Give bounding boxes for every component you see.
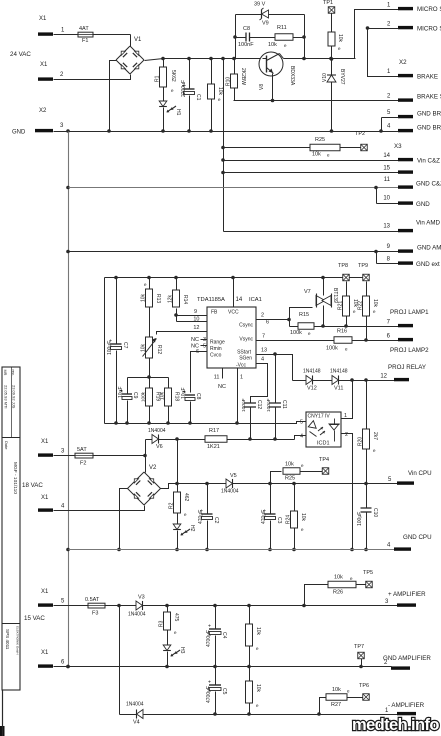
resistor R26 10k	[305, 575, 366, 606]
wire rail A	[105, 421, 307, 425]
svg-text:V10: V10	[322, 73, 328, 82]
test point TP1	[323, 0, 335, 33]
svg-text:+ AMPLIFIER: + AMPLIFIER	[388, 591, 426, 598]
svg-text:2200µF: 2200µF	[181, 80, 187, 97]
svg-text:2k7: 2k7	[372, 432, 378, 440]
svg-text:R18: R18	[174, 392, 180, 401]
wire pin12	[157, 332, 208, 335]
diode V6 1N4004	[148, 428, 166, 450]
connector + AMPLIFIER	[385, 591, 426, 607]
svg-text:1N4148: 1N4148	[303, 369, 321, 375]
svg-text:100µF: 100µF	[107, 341, 113, 355]
diode V3 1N4004	[128, 595, 398, 618]
svg-text:13: 13	[261, 348, 267, 354]
svg-text:X2: X2	[399, 59, 407, 66]
svg-text:ICD1: ICD1	[317, 441, 330, 447]
svg-text:TP5: TP5	[363, 570, 373, 576]
wire vin amd	[224, 231, 399, 233]
svg-text:C1: C1	[195, 94, 201, 101]
svg-text:10k: 10k	[255, 684, 261, 693]
svg-text:100k: 100k	[326, 346, 338, 352]
capacitor C7 100uF	[107, 278, 128, 424]
wire	[107, 59, 163, 133]
svg-text:10k: 10k	[300, 513, 306, 522]
svg-text:TP7: TP7	[354, 644, 364, 650]
svg-text:+: +	[208, 624, 211, 630]
svg-text:R10: R10	[226, 77, 232, 86]
svg-text:VCC: VCC	[228, 310, 239, 316]
svg-text:10µF: 10µF	[118, 387, 124, 399]
test point TP4	[319, 457, 329, 474]
svg-text:GND BRA: GND BRA	[417, 125, 441, 132]
svg-text:C2: C2	[213, 517, 219, 524]
svg-text:100µF: 100µF	[357, 512, 363, 526]
svg-text:470µF: 470µF	[198, 510, 204, 524]
pin 1	[235, 369, 243, 425]
svg-text:10µF: 10µF	[181, 388, 187, 400]
svg-text:10k: 10k	[337, 34, 343, 43]
resistor R24 10k	[286, 484, 307, 552]
capacitor C9 10uF	[118, 378, 138, 424]
wire dc rail 18v	[161, 482, 227, 489]
connector X3 6 PROJ LAMP2	[387, 334, 429, 355]
connector X3 13 Vin AMD	[383, 220, 440, 233]
resistor R25 10k	[224, 137, 361, 158]
svg-text:39 V: 39 V	[254, 2, 266, 8]
resistor R2 462	[169, 440, 190, 518]
wire	[54, 35, 131, 47]
title block	[2, 367, 21, 690]
svg-text:13: 13	[383, 224, 390, 230]
resistor R18 10k	[160, 378, 180, 424]
svg-text:11: 11	[384, 177, 391, 183]
svg-text:10k: 10k	[141, 293, 147, 302]
wire gnd rail	[54, 129, 399, 133]
svg-text:Vin CPU: Vin CPU	[408, 470, 432, 477]
svg-text:C9: C9	[132, 392, 138, 399]
svg-text:X1: X1	[39, 16, 47, 22]
svg-text:7: 7	[262, 334, 265, 340]
svg-text:R25: R25	[315, 137, 325, 143]
svg-text:V9: V9	[262, 21, 269, 27]
svg-text:10k: 10k	[312, 152, 321, 158]
svg-text:BYV27: BYV27	[339, 69, 345, 85]
connector GND AMPLIFIER	[383, 655, 431, 670]
label 24 VAC	[10, 51, 31, 58]
diode V5 1N4004	[221, 473, 398, 495]
bridge rectifier V2	[128, 465, 161, 505]
svg-text:TP8: TP8	[338, 263, 348, 269]
wire	[117, 604, 121, 608]
test point TP2	[355, 131, 367, 151]
svg-text:5K62: 5K62	[170, 70, 176, 82]
test point TP6	[359, 683, 369, 700]
svg-text:C8: C8	[195, 393, 201, 400]
resistor R25 10k	[271, 462, 323, 484]
svg-text:R21: R21	[338, 301, 344, 310]
connector GND CPU	[387, 534, 432, 551]
wire	[143, 440, 147, 473]
svg-text:R2: R2	[169, 502, 175, 509]
connector MICRO SW 2	[387, 22, 441, 33]
svg-text:V6: V6	[156, 444, 163, 450]
wire gnd amp rail	[54, 665, 392, 669]
connector GND BRA	[387, 124, 441, 133]
capacitor C8 10uF	[181, 388, 201, 424]
test point TP5	[363, 570, 373, 588]
triac V7 BT139	[304, 278, 338, 327]
svg-text:4AT: 4AT	[79, 26, 89, 32]
svg-text:Vsync: Vsync	[239, 337, 253, 343]
svg-text:SPS 4011: SPS 4011	[5, 629, 10, 650]
wire collector	[284, 57, 356, 61]
capacitor C11 100nF	[266, 355, 287, 441]
svg-text:R15: R15	[299, 312, 309, 318]
svg-text:V11: V11	[334, 386, 343, 392]
connector X3 9 GND AMD	[387, 244, 441, 253]
svg-text:X1: X1	[41, 495, 49, 501]
wire pin6	[191, 352, 208, 393]
svg-text:H2: H2	[189, 525, 195, 532]
resistor 10k	[328, 32, 343, 61]
watermark	[352, 716, 439, 734]
svg-text:-Vcc: -Vcc	[236, 363, 247, 369]
svg-text:V2: V2	[149, 465, 157, 471]
svg-text:R22: R22	[358, 301, 364, 310]
resistor R20 2k7	[358, 381, 379, 486]
connector X1 pin 2	[38, 62, 64, 81]
svg-text:C4: C4	[221, 632, 227, 639]
svg-text:- AMPLIFIER: - AMPLIFIER	[388, 702, 425, 709]
connector X3 8 GND ext	[387, 257, 440, 269]
resistor R17 1K21	[205, 428, 227, 450]
connector X1 pin 3	[38, 439, 65, 457]
wire pin4	[295, 436, 307, 440]
svg-text:18 VAC: 18 VAC	[22, 482, 43, 489]
svg-text:1N4004: 1N4004	[221, 489, 239, 495]
svg-text:475: 475	[173, 613, 179, 622]
wire	[377, 252, 399, 264]
wire	[54, 605, 137, 607]
svg-text:5AT: 5AT	[77, 447, 87, 453]
resistor 10k	[208, 59, 224, 132]
svg-text:NC: NC	[218, 384, 226, 390]
svg-text:C3: C3	[276, 517, 282, 524]
wire pin1	[342, 381, 353, 419]
svg-text:CNY17 IV: CNY17 IV	[308, 414, 331, 420]
svg-text:5: 5	[203, 344, 206, 350]
svg-text:X1: X1	[41, 589, 49, 595]
pin 11 NC	[214, 369, 226, 391]
svg-text:11: 11	[214, 375, 220, 381]
resistor R3 475	[159, 606, 180, 636]
capacitor C8 100nF	[236, 26, 276, 48]
connector X3 10 GND	[383, 196, 430, 209]
diode V12 1N4148	[293, 369, 333, 392]
svg-text:NC: NC	[191, 337, 199, 343]
diode V10 BYV27	[322, 60, 345, 133]
svg-text:10: 10	[193, 317, 199, 323]
svg-text:1: 1	[240, 375, 243, 381]
svg-text:Range: Range	[210, 340, 225, 346]
connector X1 pin 1	[38, 16, 65, 36]
svg-text:15: 15	[383, 166, 390, 172]
svg-text:100k: 100k	[141, 391, 146, 402]
svg-text:X1: X1	[41, 439, 49, 445]
svg-text:10k: 10k	[285, 462, 294, 468]
resistor R21 10k	[338, 282, 359, 327]
connector X3 14 Vin C&Z	[383, 153, 440, 165]
svg-text:10k: 10k	[268, 42, 277, 48]
wire	[366, 26, 399, 76]
resistor R14 12k	[168, 278, 208, 322]
connector X3 7 PROJ LAMP1	[387, 309, 429, 327]
svg-text:BDX33A: BDX33A	[289, 66, 295, 86]
svg-text:10: 10	[383, 196, 390, 202]
capacitor C5 4700uF	[206, 667, 227, 715]
svg-text:1N4148: 1N4148	[330, 369, 348, 375]
svg-text:BT139: BT139	[332, 288, 338, 303]
svg-text:R17: R17	[209, 428, 219, 434]
svg-text:Vin AMD: Vin AMD	[416, 220, 440, 227]
svg-text:4700µF: 4700µF	[206, 630, 212, 647]
connector X3 11 GND C&Z	[384, 177, 441, 189]
test point TP9	[358, 263, 369, 281]
wire	[117, 489, 127, 552]
svg-text:14: 14	[383, 153, 390, 159]
svg-text:10k: 10k	[141, 343, 147, 352]
svg-text:TP2: TP2	[355, 131, 365, 137]
svg-text:10k: 10k	[334, 575, 343, 581]
wire	[355, 10, 399, 59]
svg-text:TDA1185A: TDA1185A	[197, 297, 225, 303]
connector GND BR	[382, 110, 441, 132]
IC ICA1 TDA1185A	[191, 297, 269, 369]
connector X2 BRAKE	[387, 59, 438, 81]
svg-text:10k: 10k	[332, 687, 341, 693]
wire gnd cpu rail	[69, 549, 395, 551]
svg-text:R14: R14	[182, 295, 188, 304]
capacitor C4 4700uF	[206, 606, 227, 669]
svg-text:12k: 12k	[168, 294, 174, 303]
frame bottom	[0, 691, 5, 736]
wire line B	[146, 437, 295, 441]
wire	[224, 160, 399, 162]
connector X1 pin 5	[38, 589, 65, 607]
svg-text:PROJ LAMP1: PROJ LAMP1	[390, 309, 429, 316]
wire	[233, 15, 237, 59]
svg-text:MGF - 101/110: MGF - 101/110	[12, 462, 18, 494]
wire	[54, 455, 146, 457]
svg-text:V8: V8	[259, 84, 265, 90]
wire pin14 vcc	[233, 278, 235, 308]
LED H3	[163, 631, 185, 669]
resistor R16 100k	[326, 329, 399, 352]
svg-text:X2: X2	[39, 108, 47, 114]
svg-text:V7: V7	[304, 289, 311, 295]
svg-text:24 VAC: 24 VAC	[10, 51, 31, 58]
svg-text:100nF: 100nF	[241, 398, 247, 412]
svg-text:H3: H3	[179, 647, 185, 654]
svg-text:R1: R1	[155, 75, 161, 82]
capacitor C12 100nF	[241, 364, 268, 441]
wire	[104, 278, 106, 424]
resistor R22 10k	[358, 282, 379, 342]
connector X3 15	[383, 166, 413, 174]
connector X2 pin 3 GND	[12, 108, 64, 136]
capacitor C3 470uF	[261, 484, 282, 552]
label 15 VAC	[24, 615, 45, 622]
svg-text:R26: R26	[333, 590, 343, 596]
resistor R19 100k	[141, 378, 161, 424]
svg-text:23.09.92 JJS: 23.09.92 JJS	[12, 385, 17, 409]
connector X1 pin 4	[38, 495, 65, 512]
svg-text:R20: R20	[358, 437, 364, 446]
connector - AMPLIFIER	[385, 702, 425, 715]
svg-text:GND: GND	[12, 130, 26, 136]
potentiometer R12	[141, 308, 163, 359]
connector Vin CPU	[388, 470, 432, 485]
zener V9 39V	[236, 2, 305, 27]
pin stub NC 3	[201, 339, 208, 341]
wire gnd c&z rail	[69, 186, 399, 190]
fuse F2 5AT	[75, 447, 94, 467]
svg-text:Csync: Csync	[239, 323, 253, 329]
wire tda top rail	[105, 276, 367, 280]
pin stub NC 5	[201, 345, 208, 347]
fuse F1 4AT	[78, 26, 94, 44]
svg-text:V5: V5	[230, 473, 237, 479]
wire	[119, 606, 121, 715]
wire lamp1	[315, 324, 399, 328]
wire gnd bus	[66, 132, 70, 669]
svg-text:ICA1: ICA1	[249, 297, 262, 303]
svg-text:C10: C10	[372, 508, 378, 517]
wire pin7 lamp2	[257, 340, 335, 342]
svg-text:H1: H1	[175, 109, 181, 116]
svg-text:SGen: SGen	[239, 356, 252, 362]
svg-text:462: 462	[183, 493, 189, 502]
resistor R15 100k	[290, 312, 315, 336]
svg-text:Vin C&Z: Vin C&Z	[417, 158, 440, 165]
wire +24 feed	[221, 59, 225, 232]
svg-text:C11: C11	[281, 400, 287, 409]
svg-text:GND CPU: GND CPU	[403, 534, 432, 541]
svg-text:GND C&Z: GND C&Z	[416, 181, 441, 188]
wire pin5	[297, 421, 307, 423]
svg-text:TP4: TP4	[319, 457, 329, 463]
connector BRAKE S	[387, 94, 441, 102]
bridge rectifier V1	[116, 37, 144, 74]
svg-text:4: 4	[300, 434, 303, 440]
svg-text:2: 2	[345, 432, 348, 438]
svg-text:12: 12	[193, 325, 199, 331]
connector MICRO SW 1	[387, 3, 441, 14]
svg-text:ELEKTRONIK GmbH: ELEKTRONIK GmbH	[16, 626, 20, 655]
svg-text:R24: R24	[286, 515, 292, 524]
svg-text:470µF: 470µF	[261, 510, 267, 524]
resistor R1 5K62	[155, 59, 177, 94]
wire	[147, 359, 151, 379]
LED H2	[173, 514, 195, 552]
svg-text:100k: 100k	[290, 330, 302, 336]
svg-text:Rmin: Rmin	[210, 346, 222, 352]
test point TP7	[354, 644, 364, 668]
svg-text:2: 2	[261, 313, 264, 319]
svg-text:MICRO SW: MICRO SW	[417, 26, 441, 33]
svg-text:R27: R27	[331, 702, 341, 708]
svg-text:100nF: 100nF	[266, 398, 272, 412]
svg-text:F2: F2	[80, 461, 86, 467]
svg-text:GND BR: GND BR	[417, 111, 441, 118]
wire	[128, 377, 169, 379]
diode V4 1N4004	[120, 702, 398, 726]
svg-text:X1: X1	[40, 62, 48, 68]
svg-text:R11: R11	[277, 25, 287, 31]
svg-text:MR: MR	[3, 370, 7, 376]
svg-text:C7: C7	[122, 342, 128, 349]
svg-text:Date: Date	[4, 441, 9, 450]
svg-text:R3: R3	[159, 620, 165, 627]
optocoupler ICD1 CNY17 IV	[300, 412, 348, 447]
svg-text:X3: X3	[394, 143, 402, 150]
svg-text:15 VAC: 15 VAC	[24, 615, 45, 622]
svg-text:rev.: rev.	[11, 370, 15, 376]
wire emitter	[272, 74, 274, 101]
svg-text:FB: FB	[211, 310, 218, 316]
fuse F3 0.5AT	[85, 597, 106, 617]
svg-text:9: 9	[194, 309, 197, 315]
svg-text:22.05.93 MTl: 22.05.93 MTl	[4, 385, 9, 408]
svg-text:medteh.info: medteh.info	[352, 716, 439, 734]
svg-text:4: 4	[261, 357, 264, 363]
svg-text:PROJ RELAY: PROJ RELAY	[388, 364, 426, 371]
svg-text:X1: X1	[41, 650, 49, 656]
svg-text:TP6: TP6	[359, 683, 369, 689]
svg-text:V12: V12	[307, 386, 317, 392]
svg-text:MICRO SW: MICRO SW	[417, 6, 441, 13]
resistor R27 10k	[320, 687, 363, 715]
svg-text:V1: V1	[134, 37, 142, 43]
svg-text:V3: V3	[138, 595, 145, 601]
svg-text:F1: F1	[82, 38, 88, 44]
resistor R13 10k	[141, 278, 162, 308]
resistor 10k	[246, 606, 262, 669]
svg-text:V4: V4	[133, 720, 140, 726]
svg-text:1N4004: 1N4004	[128, 612, 146, 618]
svg-text:TP1: TP1	[323, 0, 333, 6]
wire	[302, 15, 306, 61]
svg-text:5: 5	[300, 420, 303, 426]
svg-text:BRAKE S: BRAKE S	[417, 94, 441, 101]
connector X1 pin 6	[38, 650, 65, 668]
connector X3 12 PROJ RELAY	[380, 364, 426, 381]
capacitor C1 2200uF	[181, 59, 201, 132]
svg-text:PROJ LAMP2: PROJ LAMP2	[390, 347, 429, 354]
svg-text:6: 6	[266, 320, 269, 326]
label X3	[394, 143, 402, 150]
svg-text:F3: F3	[92, 611, 98, 617]
wire gnd amd rail	[69, 250, 399, 254]
svg-text:100nF: 100nF	[238, 42, 254, 48]
svg-text:GND AMD: GND AMD	[417, 245, 441, 252]
wire +24 rail	[161, 57, 262, 61]
svg-text:C12: C12	[256, 400, 262, 409]
svg-text:C5: C5	[221, 688, 227, 695]
svg-text:1N4004: 1N4004	[148, 428, 166, 434]
LED H1	[159, 88, 181, 132]
svg-text:10k: 10k	[372, 299, 378, 308]
